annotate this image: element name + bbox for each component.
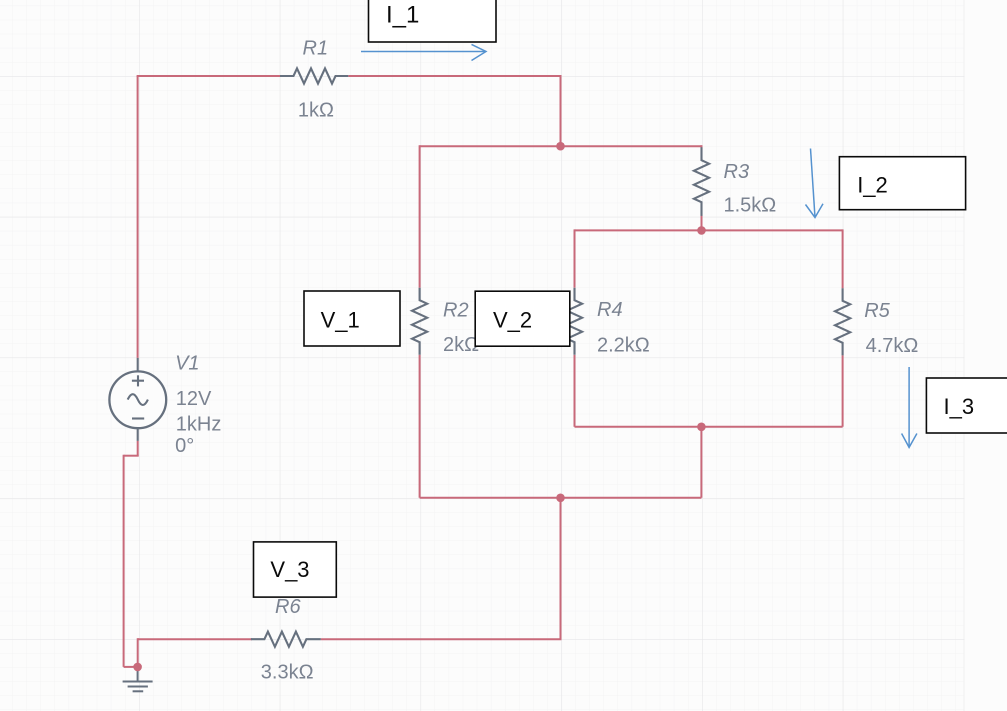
svg-text:V_2: V_2 [493, 307, 532, 332]
svg-text:R2: R2 [443, 300, 469, 322]
wire V1 bottom stub [137, 441, 139, 456]
svg-text:V1: V1 [175, 352, 199, 374]
svg-text:R4: R4 [597, 299, 623, 321]
wire R3 top stub [701, 145, 703, 150]
svg-text:1.5kΩ: 1.5kΩ [724, 195, 777, 217]
wire node C drop [700, 427, 702, 498]
wire left bottom vertical [123, 455, 125, 667]
wire horizontal R4 top to R5 top through node B [575, 229, 843, 231]
AC source V1 [109, 358, 166, 441]
wire mid horizontal R2 top to R3 top [420, 145, 702, 147]
svg-text:V_1: V_1 [321, 308, 360, 333]
resistor R3 [694, 147, 709, 216]
resistor R2 [412, 288, 427, 355]
wire top horizontal V1 to R1 [137, 75, 280, 77]
wire R4 bottom drop [574, 355, 576, 427]
wire R6 left lead to ground corner [138, 638, 252, 640]
wire V1 jog horizontal [124, 455, 139, 457]
svg-text:R5: R5 [864, 300, 890, 322]
arrow I_1 [361, 44, 486, 60]
wire node A drop [560, 75, 562, 146]
svg-text:R1: R1 [303, 38, 329, 60]
ground node junction [133, 663, 142, 672]
wire R5 bottom drop [842, 355, 844, 426]
wire node D drop to R6 row [560, 498, 562, 639]
ground [123, 668, 153, 691]
annotation box I_3 [926, 378, 1007, 433]
wire R3 bottom stub to node B [701, 216, 703, 231]
svg-text:0°: 0° [175, 435, 194, 457]
wire R2 top lead drop [419, 145, 421, 288]
svg-text:V_3: V_3 [270, 557, 309, 582]
node B junction [697, 226, 706, 235]
svg-text:1kΩ: 1kΩ [298, 100, 334, 122]
wire horizontal R4 bottom to R5 bottom through node C [575, 426, 843, 428]
wire R5 top drop [842, 229, 844, 288]
wire ground corner drop [137, 638, 139, 667]
svg-text:2kΩ: 2kΩ [443, 334, 479, 356]
svg-text:R3: R3 [724, 161, 750, 183]
svg-text:R6: R6 [275, 596, 301, 618]
resistor R4 [567, 288, 582, 355]
annotation box V_1 [304, 291, 400, 346]
wire R4 top drop [574, 229, 576, 287]
node C junction [697, 423, 706, 432]
node A junction [556, 142, 565, 151]
node D junction [556, 494, 565, 503]
wire top horizontal R1 to node A [348, 75, 560, 77]
annotation box I_1 [369, 0, 497, 42]
annotation box I_2 [839, 157, 965, 210]
wire left vertical from top node to V1 [137, 76, 139, 358]
resistor R1 [280, 68, 348, 83]
wire bottom-middle horizontal through node D [420, 497, 702, 499]
svg-text:1kHz: 1kHz [176, 414, 222, 436]
svg-text:3.3kΩ: 3.3kΩ [261, 662, 314, 684]
svg-text:I_3: I_3 [944, 394, 975, 419]
resistor R6 [251, 632, 321, 647]
arrow I_3 [902, 367, 917, 447]
svg-text:2.2kΩ: 2.2kΩ [597, 335, 650, 357]
wire R2 bottom drop [419, 355, 421, 498]
svg-text:4.7kΩ: 4.7kΩ [866, 335, 919, 357]
svg-text:I_1: I_1 [386, 2, 419, 29]
arrow I_2 [806, 149, 824, 218]
svg-text:12V: 12V [176, 388, 212, 410]
annotation box V_2 [475, 291, 570, 346]
svg-text:I_2: I_2 [857, 173, 888, 198]
resistor R5 [835, 288, 850, 355]
wire into ground node [124, 666, 138, 668]
wire R6 right lead to corner [321, 638, 562, 640]
annotation box V_3 [254, 542, 337, 597]
